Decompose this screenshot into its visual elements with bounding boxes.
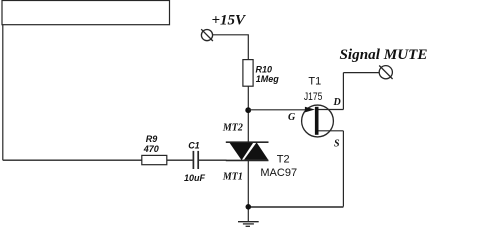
svg-text:MAC97: MAC97 [260,167,297,179]
wire (source down) [342,131,344,207]
wire (source return to ground node) [248,206,343,208]
triac T2 [226,142,269,160]
wire (horizontal to R9) [3,159,142,161]
svg-text:R9: R9 [146,134,158,144]
wire (drain up to mute net) [342,73,344,110]
svg-text:MT2: MT2 [222,123,243,134]
node (junction of R10, triac MT2, JFET gate) [245,107,251,113]
svg-text:G: G [288,112,296,123]
svg-text:470: 470 [143,144,159,154]
wire (triac MT1 down to ground) [247,160,249,221]
label R9 value [143,134,159,154]
svg-text:R10: R10 [256,65,273,75]
wire (left vertical from block to R9 net) [2,25,4,161]
svg-text:MT1: MT1 [222,172,243,183]
power terminal +15V [201,29,213,41]
wire (+15V terminal to R10 column) [213,35,249,60]
block (off-page circuit box, top-left) [2,1,170,25]
label R10 value [256,65,280,85]
svg-text:T1: T1 [308,75,321,87]
resistor R9 [142,155,167,164]
svg-text:D: D [333,97,341,108]
wire (R9 to C1) [167,159,193,161]
svg-text:S: S [334,139,340,150]
label C1 value [184,140,206,183]
output terminal Signal MUTE [379,66,392,80]
transistor T1 (JFET J175) [302,105,344,137]
resistor R10 [243,60,253,87]
svg-text:10uF: 10uF [184,173,206,183]
wire (C1 to triac gate) [199,159,227,161]
svg-text:+15V: +15V [212,13,248,29]
svg-text:1Meg: 1Meg [256,74,280,84]
wire (to Signal MUTE terminal) [343,72,379,74]
wire (R10 bottom to triac MT2) [247,86,249,142]
capacitor C1 [193,151,198,169]
svg-text:J175: J175 [304,91,323,103]
wire (gate wire to JFET) [248,109,305,111]
ground [238,222,259,227]
node (junction of MT1 wire and source return) [246,204,252,210]
svg-text:T2: T2 [277,154,290,166]
svg-text:Signal MUTE: Signal MUTE [340,47,428,63]
svg-text:C1: C1 [188,140,200,150]
